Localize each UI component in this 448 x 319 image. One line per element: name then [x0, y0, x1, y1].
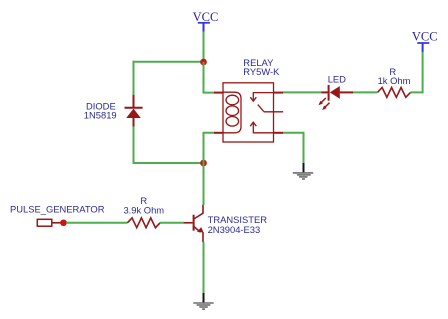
power VCC (top center): [193, 10, 219, 32]
junction port node: [60, 219, 67, 226]
wire diode cathode down to bottom junction: [134, 127, 204, 164]
junction bottom (node collector): [200, 160, 207, 167]
label TRANSISTER 2N3904-E33: [208, 214, 268, 235]
wire top junction down to relay coil top pin: [204, 62, 214, 93]
ground (relay): [293, 163, 313, 179]
LED: [318, 85, 353, 110]
port PULSE_GENERATOR: [37, 219, 60, 226]
wire emitter to ground: [203, 242, 205, 293]
svg-text:VCC: VCC: [193, 10, 219, 24]
svg-text:RY5W-K: RY5W-K: [243, 66, 280, 77]
diode DIODE 1N5819: [125, 95, 143, 127]
svg-text:3.9k Ohm: 3.9k Ohm: [123, 205, 164, 216]
wire LED to resistor R 1k: [353, 91, 377, 93]
svg-text:LED: LED: [328, 74, 346, 85]
wire relay coil bottom pin to bottom junction: [204, 133, 214, 163]
wire resistor to VCC (right): [410, 51, 422, 92]
label R 1k Ohm: [378, 66, 411, 86]
wire top horizontal to diode branch: [133, 61, 204, 63]
transistor TRANSISTER 2N3904-E33: [184, 205, 204, 242]
svg-text:1k Ohm: 1k Ohm: [378, 75, 411, 86]
label R 3.9k Ohm: [123, 195, 164, 216]
svg-text:1N5819: 1N5819: [84, 110, 117, 121]
resistor R 1k Ohm: [377, 88, 410, 98]
svg-text:PULSE_GENERATOR: PULSE_GENERATOR: [10, 203, 105, 214]
wire relay switch top pin to LED: [283, 91, 322, 93]
wire relay switch bottom pin to ground: [283, 133, 304, 164]
label RELAY RY5W-K: [243, 57, 280, 77]
junction top (node VCC rail): [200, 59, 207, 66]
wire bottom junction to collector: [203, 163, 205, 205]
wire diode branch down (anode side top): [133, 61, 135, 95]
relay RY5W-K: [214, 83, 283, 142]
wire resistor to transistor base: [160, 222, 184, 224]
ground (emitter): [193, 293, 213, 309]
svg-text:2N3904-E33: 2N3904-E33: [208, 224, 261, 235]
label DIODE 1N5819: [84, 100, 117, 120]
power VCC (top right): [412, 29, 438, 51]
resistor R 3.9k Ohm: [127, 218, 160, 228]
wire port to resistor R 3.9k: [66, 222, 127, 224]
svg-text:VCC: VCC: [412, 29, 438, 43]
wire VCC to top junction: [203, 32, 205, 63]
